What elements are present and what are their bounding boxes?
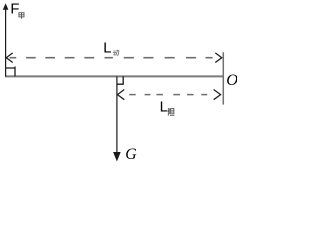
pivot line O — [222, 52, 224, 104]
svg-text:G: G — [125, 146, 137, 163]
right-angle marker at G — [117, 76, 123, 84]
weight arrow G (line) — [116, 76, 118, 154]
label subscript 阻 — [168, 108, 174, 116]
L动 right arrowhead — [215, 53, 222, 63]
L阻 left arrowhead — [118, 90, 125, 100]
dashed line L动 — [10, 57, 213, 59]
svg-text:O: O — [226, 70, 237, 89]
force arrow F (line) — [5, 8, 7, 76]
lever bar — [5, 75, 223, 77]
svg-text:F: F — [10, 2, 19, 18]
L动 left arrowhead — [6, 53, 12, 63]
svg-text:L: L — [160, 100, 168, 116]
L阻 right arrowhead — [214, 90, 221, 100]
label subscript 动 — [113, 50, 119, 56]
dashed line L阻 — [129, 94, 207, 96]
weight arrow G (head) — [113, 152, 121, 162]
force arrow F (head) — [3, 3, 9, 10]
right-angle marker at F — [6, 68, 15, 76]
label F subscript 甲 — [19, 13, 24, 19]
svg-text:L: L — [103, 41, 111, 57]
